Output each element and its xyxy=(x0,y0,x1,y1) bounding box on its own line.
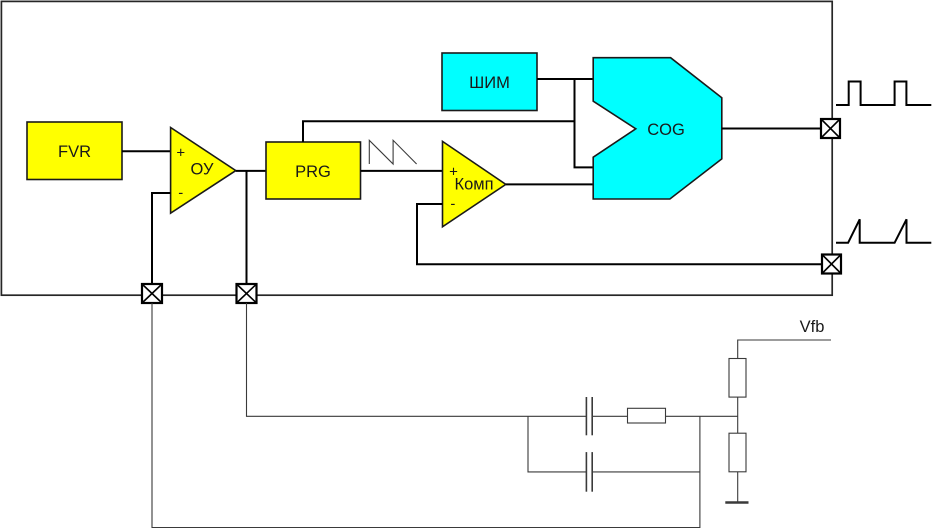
wire FVR to op-amp + input xyxy=(122,150,171,152)
capacitor C1 xyxy=(586,397,592,435)
ground xyxy=(725,501,748,504)
resistor R2 xyxy=(729,433,746,472)
wire pin FB1 bottom loop xyxy=(152,303,700,528)
svg-text:PRG: PRG xyxy=(295,163,331,181)
wire op-amp inverting input feedback xyxy=(152,193,171,294)
IC boundary rectangle xyxy=(1,1,832,295)
sawtooth ramp symbol xyxy=(369,140,416,164)
svg-text:+: + xyxy=(176,145,185,162)
svg-text:FVR: FVR xyxy=(58,143,91,161)
wire branch down to C2 xyxy=(528,416,586,472)
block SHIM (PWM) xyxy=(442,53,537,111)
wire pin FB2 to compensation network xyxy=(247,303,587,416)
wire junction vertical to COG lower input xyxy=(575,79,594,167)
wire comparator output to COG xyxy=(506,183,593,185)
pin FB1 (inverting input pin) xyxy=(142,284,162,303)
wire comparator - input from pin OUT2 xyxy=(417,204,822,264)
svg-text:-: - xyxy=(450,196,455,213)
wire C2 right plate to bottom junction xyxy=(592,471,700,473)
wire SHIM output to COG xyxy=(537,78,593,80)
wire R2 to ground xyxy=(737,472,739,502)
block PRG xyxy=(266,142,361,199)
block COG xyxy=(593,58,722,199)
capacitor C2 xyxy=(586,452,592,492)
square wave symbol at OUT1 xyxy=(836,82,931,106)
op-amp U1 (OU) xyxy=(171,128,236,214)
svg-text:Комп: Комп xyxy=(454,176,493,194)
wire PRG top to COG input xyxy=(303,121,575,142)
wire R1 to R2 xyxy=(737,397,739,433)
wire op-amp output to PRG xyxy=(236,170,266,172)
block FVR xyxy=(27,122,122,180)
pin OUT2 xyxy=(822,255,841,274)
resistor R3 xyxy=(628,408,666,423)
sawtooth wave symbol at OUT2 xyxy=(836,219,931,243)
wire PRG output to comparator + input xyxy=(361,170,443,172)
svg-text:Vfb: Vfb xyxy=(800,318,825,336)
pin OUT1 xyxy=(821,119,840,138)
resistor R1 xyxy=(729,359,746,398)
comparator U2 (Komp) xyxy=(443,141,506,226)
pin FB2 (op-amp output pin) xyxy=(237,284,257,303)
wire COG output to pin OUT1 xyxy=(722,128,822,130)
wire op-amp output junction down to pin FB2 xyxy=(246,171,248,294)
wire resistor R3 to divider junction xyxy=(666,415,738,417)
svg-text:ОУ: ОУ xyxy=(191,161,214,179)
svg-text:COG: COG xyxy=(647,121,685,139)
wire capacitor C1 to resistor R3 xyxy=(592,415,627,417)
wire Vfb xyxy=(738,340,831,359)
svg-text:ШИМ: ШИМ xyxy=(469,74,510,92)
svg-text:-: - xyxy=(178,185,183,202)
